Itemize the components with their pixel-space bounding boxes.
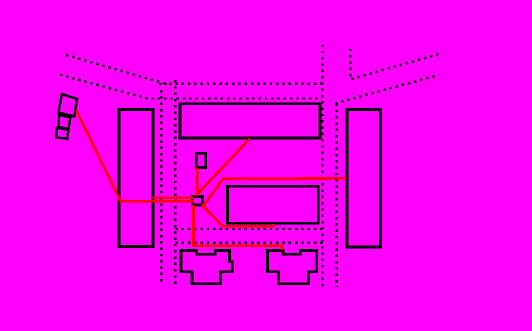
- building rotated middle section: [58, 115, 70, 129]
- red link F from node to middle building: [201, 204, 273, 226]
- road horizontal H3: [175, 228, 322, 230]
- building rotated upper section: [58, 94, 77, 116]
- building right tall: [347, 110, 381, 248]
- road vertical V4: [160, 90, 162, 284]
- building small center: [196, 153, 205, 167]
- building top wide: [180, 104, 320, 138]
- building rotated lower section: [56, 128, 68, 139]
- building middle: [228, 186, 319, 223]
- road top-right diagonal D4: [335, 75, 439, 104]
- road vertical V1: [321, 45, 323, 289]
- road horizontal H4: [175, 241, 323, 243]
- road vertical V2: [336, 104, 338, 288]
- building bottom-right shirt-shaped: [268, 251, 317, 284]
- red link D from node to top building: [197, 139, 250, 195]
- road vertical V3 bending into top-right diagonal D3: [350, 49, 440, 80]
- red link C from small building to node: [196, 168, 199, 197]
- node square: [193, 197, 203, 206]
- red link G from node to bottom-right building: [194, 205, 282, 250]
- red link B from left building to node: [153, 197, 195, 200]
- red link A from rotated building to node: [76, 110, 194, 201]
- road vertical V5: [174, 80, 176, 284]
- road upper-left diagonal 2 with horizontal continuation: [60, 75, 322, 99]
- building left tall: [119, 110, 153, 247]
- red link E from node to right building: [204, 178, 347, 205]
- road upper-left diagonal 1 with horizontal continuation: [66, 55, 322, 84]
- building bottom-left shirt-shaped: [181, 251, 232, 284]
